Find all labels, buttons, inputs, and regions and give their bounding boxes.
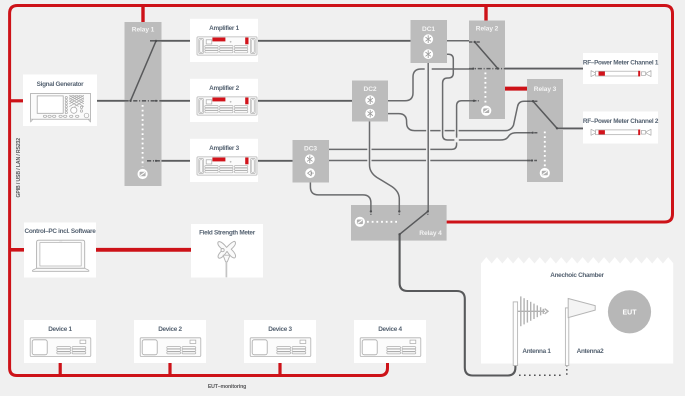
wire amplifier2 to DC2 — [258, 100, 352, 102]
relay 4 alternative positions dotted — [367, 221, 397, 223]
antenna 2 horn — [568, 299, 595, 318]
amplifier 2 drawing — [197, 97, 257, 115]
anechoic chamber box with zigzag roof — [481, 257, 673, 363]
wire DC2 bottom down with jog to relay4 middle node — [370, 122, 400, 212]
amplifier 1 box — [190, 19, 258, 62]
svg-text:Relay 3: Relay 3 — [534, 86, 557, 93]
bus stub to Relay 2 — [484, 6, 487, 21]
wire relay3 to power meter ch2 — [563, 127, 583, 129]
DC3 box — [293, 140, 330, 183]
signal generator drawing — [31, 94, 91, 123]
svg-text:Relay 1: Relay 1 — [132, 27, 155, 34]
antenna 1 log-periodic elements — [518, 296, 548, 326]
bus Control-PC to Field Strength Meter — [96, 248, 192, 252]
relay 2: input stubs dash-dot — [469, 42, 505, 101]
wire relay1 to amplifier3 — [162, 160, 191, 162]
svg-text:GPIB / USB / LAN / RS232: GPIB / USB / LAN / RS232 — [16, 138, 22, 198]
field strength meter probe drawing — [218, 241, 236, 277]
relay 2 nodes — [472, 41, 499, 102]
svg-text:EUT: EUT — [623, 310, 638, 317]
relay 3 alternative positions dotted — [544, 132, 546, 167]
amplifier 3 drawing — [197, 157, 257, 175]
wire relay1 to amplifier1 — [162, 40, 191, 42]
wire DC1 bottom down to relay4 right node — [427, 63, 429, 211]
DC2 box — [352, 81, 388, 122]
DC1 box — [411, 20, 448, 63]
field strength meter box — [191, 224, 263, 278]
svg-text:Device 1: Device 1 — [48, 326, 72, 333]
bus stub to Signal Generator — [10, 99, 24, 102]
relay 1 switch arm — [131, 41, 157, 101]
svg-text:DC1: DC1 — [422, 26, 435, 33]
wire DC2 port1 up to relay2 input2 — [388, 69, 473, 101]
relay 4 remote icon — [355, 217, 365, 227]
relay 3 nodes — [531, 100, 558, 162]
relay 1 alternative positions dotted — [142, 105, 144, 167]
relay 2 box — [469, 21, 505, 120]
dotted alternative path antenna1 to antenna2 — [519, 363, 567, 376]
svg-text:Relay 2: Relay 2 — [476, 26, 499, 33]
svg-text:EUT–monitoring: EUT–monitoring — [208, 384, 246, 390]
signal generator box — [23, 75, 97, 127]
wire DC3 through-line to relay3 input3 — [329, 160, 532, 162]
RF power meter channel 1 box — [583, 53, 658, 84]
svg-text:Control–PC incl. Software: Control–PC incl. Software — [25, 228, 97, 235]
relay 2 alternative positions dotted — [484, 73, 486, 106]
relay 3: input stubs dash-dot — [527, 101, 563, 160]
DC2 ports — [365, 95, 375, 105]
device 4 drawing — [360, 338, 421, 357]
svg-text:Device 4: Device 4 — [378, 326, 402, 333]
bus Relay 2 to Relay 3 — [505, 87, 527, 91]
bus stubs to Devices 1-3 — [59, 363, 62, 375]
relay 4: node stubs — [371, 211, 428, 215]
relay 4 switch arm — [400, 211, 428, 234]
device 2 box — [134, 320, 206, 363]
svg-text:DC2: DC2 — [364, 86, 377, 93]
wire amplifier1 to DC1 — [258, 40, 411, 42]
relay 3 box — [527, 79, 563, 182]
wire DC3 reverse port down-right to relay4 left node — [310, 183, 371, 212]
svg-text:Antenna2: Antenna2 — [577, 348, 604, 355]
wire amplifier3 to DC3 — [258, 160, 293, 162]
wire DC1 through-out to relay2 input1 — [447, 40, 469, 42]
relay 1: dash-dot through lines — [125, 41, 162, 161]
relay 2 remote icon — [481, 106, 491, 116]
bus stub to Control-PC — [10, 248, 25, 252]
svg-text:DC3: DC3 — [304, 145, 317, 152]
wire relay1 to amplifier2 — [162, 100, 191, 102]
svg-text:Relay 4: Relay 4 — [419, 230, 442, 237]
device 3 box — [244, 320, 316, 363]
device 4 box — [354, 320, 426, 363]
svg-text:Device 2: Device 2 — [158, 326, 182, 333]
antenna 2 mast — [565, 308, 568, 366]
bus stub to Relay 1 — [141, 6, 144, 22]
svg-text:RF–Power Meter Channel 2: RF–Power Meter Channel 2 — [583, 118, 659, 125]
relay 3 remote icon — [540, 168, 550, 178]
relay 1 box — [125, 22, 162, 186]
svg-text:Amplifier 2: Amplifier 2 — [209, 85, 239, 92]
DC3 ports — [305, 154, 315, 164]
device 2 drawing — [140, 338, 201, 357]
power meter ch2 sensor drawing — [591, 129, 651, 135]
device 3 drawing — [250, 338, 311, 357]
control PC laptop drawing — [32, 240, 89, 271]
svg-text:Amplifier 1: Amplifier 1 — [209, 25, 239, 32]
wire DC1 port2 down-jog to y140 rail toward relay3 input2 — [443, 54, 533, 140]
control PC box — [24, 223, 96, 278]
amplifier 2 box — [190, 79, 258, 122]
relay 4 nodes — [370, 210, 429, 235]
wire DC2 port2 down to y130.6 rail toward relay3 input1 — [388, 101, 533, 130]
wire relay2 to power meter ch1 — [505, 68, 583, 70]
svg-text:Field Strength Meter: Field Strength Meter — [199, 230, 256, 237]
antenna 1 mast — [513, 302, 517, 366]
svg-text:RF–Power Meter Channel 1: RF–Power Meter Channel 1 — [583, 59, 659, 66]
relay 3 switch arm — [533, 101, 557, 128]
wire SG to relay1 — [97, 100, 125, 102]
amplifier 3 box — [190, 139, 258, 182]
power meter ch1 sensor drawing — [591, 71, 651, 77]
svg-text:Device 3: Device 3 — [268, 326, 292, 333]
svg-text:Antenna 1: Antenna 1 — [522, 348, 551, 355]
device 1 drawing — [30, 338, 91, 357]
svg-text:Signal Generator: Signal Generator — [37, 81, 85, 88]
amplifier 1 drawing — [197, 37, 257, 55]
relay 4 box — [351, 205, 447, 241]
relay 2 switch arm — [475, 42, 498, 69]
wire relay4 output trunk to antenna 1 — [400, 234, 516, 375]
relay 1 remote icon — [138, 169, 148, 179]
svg-text:Anechoic Chamber: Anechoic Chamber — [550, 272, 604, 279]
DC1 ports — [423, 34, 433, 44]
EUT circle in chamber — [608, 290, 651, 333]
svg-text:Amplifier 3: Amplifier 3 — [209, 145, 239, 152]
device 1 box — [24, 320, 96, 363]
relay 1 nodes — [129, 40, 157, 162]
wire DC3 top port right and up to relay2 input3 — [329, 101, 474, 150]
RF power meter channel 2 box — [583, 112, 658, 144]
